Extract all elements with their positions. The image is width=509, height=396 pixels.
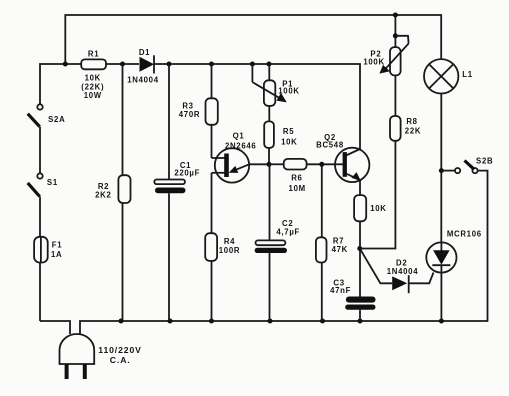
svg-text:22K: 22K	[405, 127, 421, 136]
svg-text:10W: 10W	[84, 91, 102, 100]
potentiometer P2	[394, 15, 396, 47]
svg-text:1N4004: 1N4004	[127, 75, 159, 84]
resistor R7	[316, 237, 327, 262]
switch S2B	[441, 170, 455, 172]
node 10K / R8 / D2 / C3 junction	[357, 246, 362, 251]
svg-text:10K: 10K	[370, 204, 386, 213]
node C2 bottom	[268, 319, 273, 324]
node R2 top	[120, 62, 125, 67]
svg-text:10K: 10K	[281, 138, 297, 147]
node C1 top	[167, 62, 172, 67]
resistor R4	[205, 233, 217, 261]
resistor 10K (emitter)	[354, 195, 366, 221]
resistor R3	[211, 64, 213, 98]
svg-text:R4: R4	[224, 237, 235, 246]
lamp L1	[424, 59, 458, 93]
svg-text:100K: 100K	[278, 86, 299, 95]
node top-rail drop	[63, 62, 68, 67]
svg-text:S2B: S2B	[476, 157, 493, 166]
fuse F1	[34, 237, 48, 263]
svg-text:470R: 470R	[179, 110, 200, 119]
capacitor C3	[346, 297, 376, 303]
svg-text:F1: F1	[52, 241, 63, 250]
svg-text:47nF: 47nF	[330, 286, 351, 295]
potentiometer P1	[268, 64, 270, 80]
svg-text:R1: R1	[88, 49, 99, 58]
wire S2A to S1	[39, 127, 41, 173]
svg-text:100R: 100R	[219, 246, 240, 255]
switch S2A	[37, 104, 42, 109]
node SCR bottom	[439, 319, 444, 324]
node R7 bottom	[320, 319, 325, 324]
node R2 bottom	[119, 319, 124, 324]
svg-text:BC548: BC548	[316, 141, 344, 150]
svg-text:2N2646: 2N2646	[225, 141, 257, 150]
svg-text:R5: R5	[283, 127, 294, 136]
wire junction to R7	[321, 164, 323, 237]
capacitor C1	[168, 64, 170, 180]
svg-text:100K: 100K	[363, 57, 384, 66]
svg-text:R2: R2	[98, 182, 109, 191]
wire Q1 B1 to R4	[211, 173, 213, 233]
wire F1 to bottom rail	[39, 263, 41, 322]
svg-text:1A: 1A	[51, 250, 62, 259]
node S2B tap	[439, 168, 444, 173]
wire second rail right	[154, 64, 361, 150]
node Q2 base junction	[319, 162, 324, 167]
wire S1 to F1	[39, 197, 41, 238]
resistor R2	[122, 64, 124, 175]
svg-text:10M: 10M	[289, 184, 306, 193]
wire lamp to SCR	[440, 94, 442, 243]
node Q1 emitter junction	[267, 162, 272, 167]
svg-text:4,7µF: 4,7µF	[276, 228, 300, 237]
svg-text:1N4004: 1N4004	[387, 267, 419, 276]
svg-text:Q1: Q1	[233, 131, 245, 140]
svg-text:S2A: S2A	[48, 115, 65, 124]
resistor R1	[81, 59, 106, 69]
resistor R6	[284, 159, 307, 170]
node P1 top	[267, 62, 272, 67]
wire junction to C2	[269, 164, 271, 240]
resistor R5	[264, 121, 274, 147]
switch S1	[37, 173, 42, 178]
svg-text:MCR106: MCR106	[447, 229, 482, 238]
svg-text:(22K): (22K)	[81, 82, 104, 91]
svg-text:110/220V: 110/220V	[98, 345, 142, 355]
plug 110/220V	[60, 334, 95, 364]
resistor R8	[390, 116, 401, 141]
svg-text:D1: D1	[139, 48, 150, 57]
svg-text:10K: 10K	[85, 73, 101, 82]
transistor Q1	[215, 148, 249, 182]
svg-text:220µF: 220µF	[174, 169, 200, 178]
diode D1	[140, 57, 155, 72]
wire Q2 emitter to 10K	[359, 180, 361, 195]
wire R3 to Q1 B2	[211, 125, 213, 158]
capacitor C2	[256, 240, 286, 245]
svg-text:R6: R6	[291, 173, 302, 182]
svg-text:C.A.: C.A.	[110, 355, 131, 365]
diode D2	[360, 249, 392, 284]
node R3 top	[209, 62, 214, 67]
svg-text:2K2: 2K2	[95, 191, 111, 200]
SCR MCR106	[426, 242, 456, 272]
wire bottom rail	[40, 321, 70, 334]
wire second rail left	[40, 64, 81, 104]
svg-text:47K: 47K	[332, 245, 348, 254]
svg-text:S1: S1	[47, 178, 58, 187]
svg-text:R8: R8	[406, 117, 417, 126]
transistor Q2	[335, 148, 369, 182]
wire top rail	[65, 15, 441, 64]
svg-text:L1: L1	[462, 70, 473, 79]
node C3 bottom	[358, 319, 363, 324]
node top rail / P2 tap	[393, 13, 398, 18]
wire second rail middle	[106, 63, 139, 65]
node C1 bottom	[168, 319, 173, 324]
node P1 wiper top	[250, 62, 255, 67]
node R4 bottom	[209, 319, 214, 324]
